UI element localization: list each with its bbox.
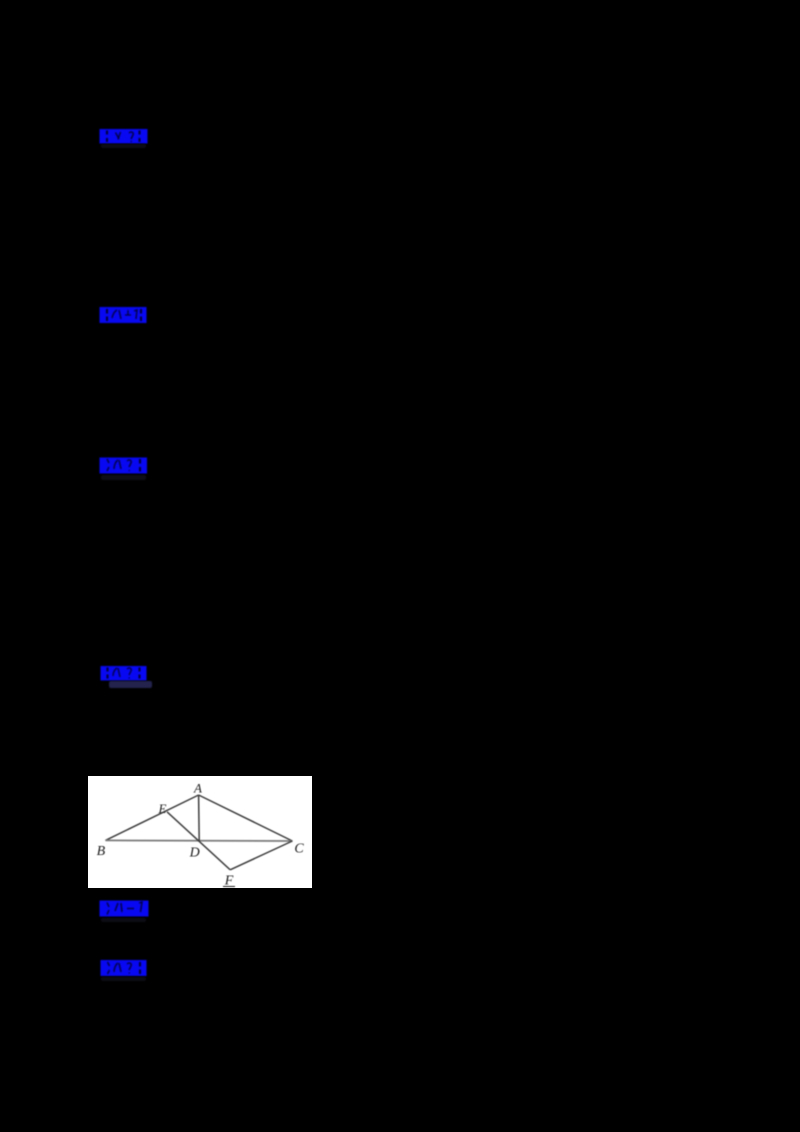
label F underline [223,886,235,888]
svg-text:E: E [158,801,167,816]
svg-text:A: A [193,781,202,796]
faint smear under tag 6 [101,977,146,982]
answer tag 3 [99,456,149,475]
wire AC [199,795,293,841]
diagram image box [88,776,312,888]
answer tag 2 [99,306,149,324]
svg-text:C: C [294,842,304,857]
answer tag 5 [99,899,150,918]
faint smear under tag 1 [101,144,146,148]
wire FC [230,841,292,870]
svg-text:D: D [189,846,200,861]
svg-text:F: F [224,874,234,889]
faint smear under tag 5 [101,918,146,923]
answer tag 6 [100,959,148,977]
faint navy smear under tag 4 [109,681,152,688]
wire BC [105,839,292,842]
wire EF [167,812,230,870]
wire AD [198,795,201,841]
wire BA [105,795,198,840]
svg-text:B: B [97,844,106,859]
faint smear under tag 3 [101,475,146,480]
answer tag 1 [99,128,149,145]
answer tag 4 [100,665,148,682]
